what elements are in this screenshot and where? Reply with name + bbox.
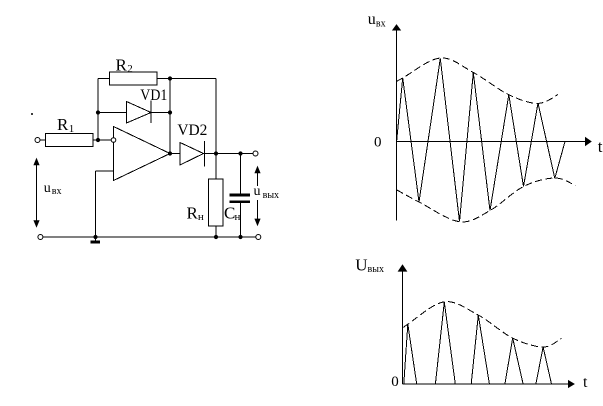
svg-text:R: R	[57, 115, 69, 134]
svg-text:VD2: VD2	[177, 122, 207, 139]
svg-text:вх: вх	[376, 18, 386, 29]
svg-text:t: t	[583, 374, 588, 391]
svg-text:U: U	[355, 255, 367, 274]
svg-text:1: 1	[69, 123, 75, 135]
svg-text:вых: вых	[368, 264, 384, 275]
svg-text:н: н	[235, 211, 241, 223]
svg-text:вх: вх	[52, 186, 62, 197]
svg-text:u: u	[44, 181, 51, 196]
svg-text:н: н	[198, 211, 204, 223]
svg-text:u: u	[254, 184, 261, 199]
svg-text:вых: вых	[263, 190, 279, 201]
svg-text:R: R	[116, 56, 128, 75]
svg-text:u: u	[368, 11, 376, 28]
svg-text:R: R	[187, 203, 199, 222]
svg-text:0: 0	[374, 134, 382, 150]
svg-text:0: 0	[391, 374, 399, 390]
svg-text:VD1: VD1	[140, 87, 167, 104]
svg-text:t: t	[598, 137, 603, 156]
svg-text:2: 2	[127, 63, 133, 75]
